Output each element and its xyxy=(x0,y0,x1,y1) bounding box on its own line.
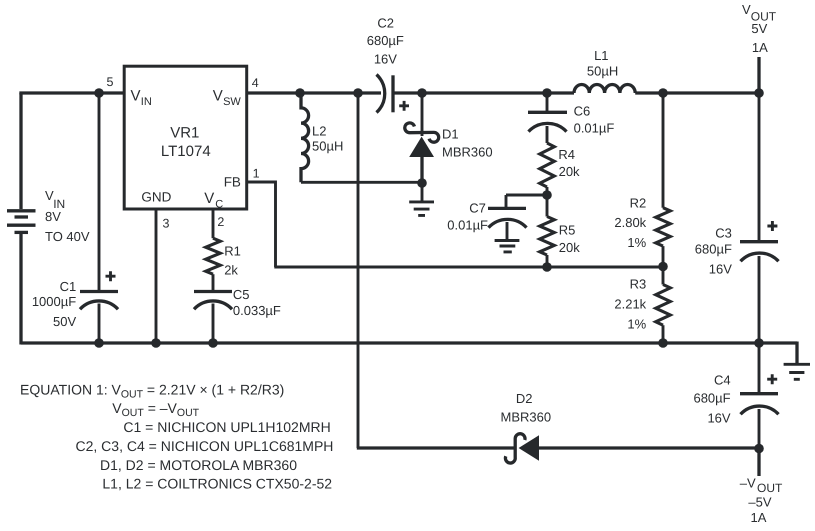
svg-text:SW: SW xyxy=(223,96,241,108)
diode D2 MBR360 xyxy=(505,434,539,463)
svg-text:50µH: 50µH xyxy=(312,139,343,154)
wire L2 bottom to D1 anode node xyxy=(301,181,422,184)
svg-text:2: 2 xyxy=(217,215,224,229)
node D1/L2 ground node xyxy=(417,178,427,188)
wire D1 cathode lead xyxy=(421,93,424,136)
svg-text:R2: R2 xyxy=(630,195,647,210)
svg-text:20k: 20k xyxy=(559,164,580,179)
node C3/C4/ground rail xyxy=(754,338,764,348)
wire FB horizontal run to divider xyxy=(274,266,663,269)
node R5/FB wire xyxy=(542,262,552,272)
wire bottom ground rail xyxy=(21,341,797,344)
wire long vertical to D2 xyxy=(357,93,360,448)
svg-text:L1, L2 = COILTRONICS CTX50-2-5: L1, L2 = COILTRONICS CTX50-2-52 xyxy=(102,476,332,492)
wire R2 top lead xyxy=(662,93,665,208)
capacitor C2 straight plate xyxy=(391,75,394,112)
C3 curved plate xyxy=(741,253,779,261)
node VSW/L2 junction xyxy=(295,88,305,98)
capacitor C5 flat plate xyxy=(194,290,232,293)
node junction VIN/C1 xyxy=(94,88,104,98)
wire C7 branch horizontal xyxy=(506,194,547,197)
svg-text:680µF: 680µF xyxy=(367,33,404,48)
wire ground rail right end drop xyxy=(795,342,798,364)
svg-text:1A: 1A xyxy=(751,510,767,525)
svg-text:1A: 1A xyxy=(752,40,768,55)
wire C3 lower stem xyxy=(758,256,761,343)
svg-text:3: 3 xyxy=(163,216,170,230)
wire R5 bottom lead xyxy=(546,255,549,267)
svg-text:0.033µF: 0.033µF xyxy=(233,303,281,318)
svg-text:C3: C3 xyxy=(715,225,732,240)
resistor R1 xyxy=(206,238,221,274)
wire C7 branch vertical xyxy=(505,195,508,207)
svg-text:0.01µF: 0.01µF xyxy=(574,121,615,136)
svg-text:VR1: VR1 xyxy=(170,124,199,141)
svg-text:1: 1 xyxy=(253,166,260,180)
ground symbol right xyxy=(784,364,810,379)
svg-text:680µF: 680µF xyxy=(695,242,732,257)
wire VC pin 2 lead xyxy=(212,209,215,238)
svg-text:V: V xyxy=(131,88,141,105)
svg-text:IN: IN xyxy=(141,96,152,108)
node D2/C4/-VOUT xyxy=(754,444,764,454)
node GND pin/ground rail xyxy=(151,338,161,348)
wire C4 upper stem xyxy=(758,343,761,393)
capacitor C7 branch xyxy=(488,195,547,252)
svg-text:EQUATION 1: VOUT = 2.21V × (1: EQUATION 1: VOUT = 2.21V × (1 + R2/R3) xyxy=(20,382,284,401)
svg-text:1%: 1% xyxy=(627,235,646,250)
resistor R4 xyxy=(540,143,555,187)
capacitor C5 curved plate xyxy=(194,301,232,309)
wire C1 lower stem xyxy=(98,304,101,344)
C7 curved plate xyxy=(489,219,527,227)
wire D1 node to ground xyxy=(421,183,424,201)
wire D1 anode lead xyxy=(420,157,423,183)
wire C3 upper stem xyxy=(758,93,761,241)
capacitor C6 xyxy=(528,93,567,143)
wire top rail from C2 straight plate to L1 xyxy=(393,91,574,94)
svg-text:–V: –V xyxy=(740,475,756,490)
svg-text:V: V xyxy=(742,2,751,17)
wire D2 row left segment xyxy=(357,446,516,449)
node L1/R2 junction xyxy=(658,88,668,98)
node C5/ground rail xyxy=(208,338,218,348)
battery plate long xyxy=(7,224,36,227)
wire top rail left segment (battery corner to IC pin 5) xyxy=(21,93,124,95)
wire C7 to ground xyxy=(506,222,509,239)
node R2/R3/FB xyxy=(658,262,668,272)
svg-text:8V: 8V xyxy=(45,209,61,224)
ground symbol below C7 xyxy=(495,241,520,252)
battery plate long top xyxy=(7,209,36,212)
battery plate short bottom xyxy=(15,231,29,234)
svg-text:C1: C1 xyxy=(60,279,77,294)
svg-text:5V: 5V xyxy=(751,21,767,36)
wire R3 top lead xyxy=(662,267,665,285)
svg-text:16V: 16V xyxy=(707,410,730,425)
wire VOUT stub xyxy=(757,57,760,93)
capacitor C4 xyxy=(740,343,779,449)
svg-text:C1 = NICHICON UPL1H102MRH: C1 = NICHICON UPL1H102MRH xyxy=(123,419,330,435)
capacitor C1 plus sign xyxy=(106,271,116,281)
regulator IC VR1 LT1074 box xyxy=(124,66,247,209)
wire D2 anode to -VOUT node xyxy=(539,446,759,449)
svg-text:LT1074: LT1074 xyxy=(161,143,211,160)
wire R1 to C5 xyxy=(212,274,215,290)
svg-text:TO 40V: TO 40V xyxy=(45,229,90,244)
equation and BOM text block xyxy=(20,382,333,492)
capacitor C2 plus sign xyxy=(399,101,409,111)
C6 curved plate xyxy=(529,123,567,131)
svg-text:R4: R4 xyxy=(558,147,575,162)
svg-text:FB: FB xyxy=(224,174,241,189)
C3 flat plate xyxy=(740,240,778,243)
svg-text:2k: 2k xyxy=(224,263,238,278)
svg-text:2.21k: 2.21k xyxy=(614,297,646,312)
svg-text:MBR360: MBR360 xyxy=(442,144,493,159)
svg-text:R3: R3 xyxy=(630,276,647,291)
wire top rail from VSW pin to C2 curved plate xyxy=(247,91,381,94)
D2 schottky cathode curl xyxy=(505,434,525,463)
node C6 junction on top rail xyxy=(542,88,552,98)
battery plate short xyxy=(15,215,29,218)
svg-text:GND: GND xyxy=(141,190,171,205)
svg-text:D2: D2 xyxy=(516,391,533,406)
wire FB pin to corner xyxy=(248,182,276,267)
capacitor C3 xyxy=(740,93,779,343)
svg-text:–5V: –5V xyxy=(748,495,771,510)
svg-text:680µF: 680µF xyxy=(693,391,730,406)
inductor L2 xyxy=(301,93,309,182)
wire C1 branch upper xyxy=(98,93,101,290)
wire R5 top lead xyxy=(546,195,549,217)
C7 flat plate xyxy=(488,207,526,210)
svg-text:R5: R5 xyxy=(559,222,576,237)
resistor R5 xyxy=(540,217,555,256)
wire R3 bottom lead xyxy=(662,325,665,343)
capacitor C2 curved plate xyxy=(377,75,385,113)
svg-text:4: 4 xyxy=(252,76,259,90)
svg-text:16V: 16V xyxy=(374,52,397,67)
wire top rail from L1 to VOUT node xyxy=(635,91,759,94)
C4 curved plate xyxy=(741,406,779,414)
svg-text:L1: L1 xyxy=(594,48,608,63)
C6 flat plate xyxy=(528,111,567,114)
svg-text:MBR360: MBR360 xyxy=(501,410,552,425)
svg-text:C7: C7 xyxy=(469,200,486,215)
D2 triangle xyxy=(519,435,539,461)
D1 schottky cathode curl xyxy=(405,123,439,142)
node C2/D1 junction xyxy=(417,88,427,98)
resistor R2 xyxy=(656,208,671,246)
svg-text:L2: L2 xyxy=(312,124,326,139)
svg-text:C4: C4 xyxy=(714,372,731,387)
node VOUT junction xyxy=(754,88,764,98)
node R3/ground rail xyxy=(658,338,668,348)
resistor R3 xyxy=(656,285,671,326)
battery V1 VIN source xyxy=(7,93,36,345)
C3 plus sign xyxy=(767,221,777,231)
svg-text:C: C xyxy=(215,198,223,210)
svg-text:C6: C6 xyxy=(574,104,591,119)
wire C6 to R4 xyxy=(546,126,549,143)
wire -VOUT stub xyxy=(757,449,760,477)
C4 plus sign xyxy=(767,374,777,384)
wire C6 stem xyxy=(546,93,549,111)
svg-text:R1: R1 xyxy=(224,243,241,258)
svg-text:C2, C3, C4 = NICHICON UPL1C681: C2, C3, C4 = NICHICON UPL1C681MPH xyxy=(76,438,334,454)
node C2 left / down-wire junction xyxy=(353,88,363,98)
ground symbol below D1 xyxy=(409,202,434,216)
wire battery bottom lead xyxy=(19,234,22,345)
svg-text:OUT: OUT xyxy=(757,481,783,495)
svg-text:D1, D2 = MOTOROLA MBR360: D1, D2 = MOTOROLA MBR360 xyxy=(100,457,297,473)
svg-text:VOUT = –VOUT: VOUT = –VOUT xyxy=(112,400,199,419)
svg-text:1%: 1% xyxy=(627,316,646,331)
wire GND pin 3 xyxy=(155,209,158,343)
svg-text:50µH: 50µH xyxy=(587,63,618,78)
inductor L1 xyxy=(574,85,635,94)
svg-text:C5: C5 xyxy=(233,287,250,302)
svg-text:2.80k: 2.80k xyxy=(614,215,646,230)
D1 triangle xyxy=(409,137,434,157)
capacitor C1 flat plate xyxy=(80,290,118,293)
svg-text:V: V xyxy=(204,190,214,207)
capacitor C1 curved plate xyxy=(80,301,118,309)
node R4/R5/C7 xyxy=(542,190,552,200)
svg-text:50V: 50V xyxy=(53,314,76,329)
wire C5 lower stem xyxy=(212,304,215,344)
svg-text:V: V xyxy=(213,88,223,105)
svg-text:20k: 20k xyxy=(559,240,580,255)
wire R2 bottom lead xyxy=(662,246,665,266)
svg-text:16V: 16V xyxy=(709,262,732,277)
C4 flat plate xyxy=(740,392,778,395)
diode D1 MBR360 xyxy=(405,93,439,183)
node C1/ground rail xyxy=(94,338,104,348)
wire battery top lead xyxy=(19,93,22,209)
svg-text:1000µF: 1000µF xyxy=(32,294,76,309)
svg-text:C2: C2 xyxy=(377,15,394,30)
svg-text:0.01µF: 0.01µF xyxy=(447,217,488,232)
svg-text:D1: D1 xyxy=(442,127,459,142)
svg-text:5: 5 xyxy=(107,75,114,89)
wire R4 to node xyxy=(546,187,549,195)
wire C4 lower stem xyxy=(758,409,761,449)
